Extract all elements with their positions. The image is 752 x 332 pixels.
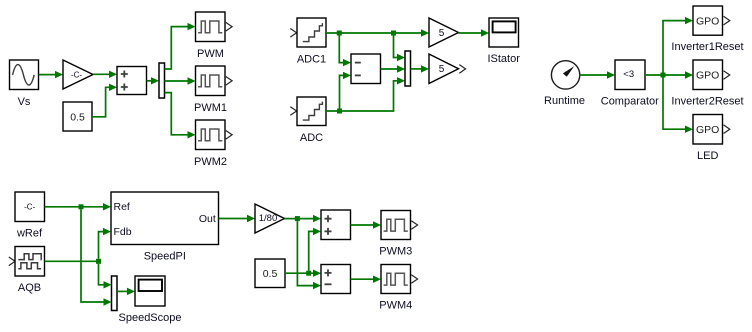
wire Mux to Gain5b bbox=[411, 65, 430, 72]
svg-text:Runtime: Runtime bbox=[544, 95, 585, 107]
junction on AQB wire bbox=[96, 259, 101, 264]
wire ADC to Mux in3 bbox=[326, 77, 405, 111]
constant 0.5 b bbox=[255, 259, 285, 288]
scope IStator bbox=[489, 18, 519, 47]
wire Demux to PWM bbox=[165, 23, 196, 69]
svg-text:Comparator: Comparator bbox=[601, 96, 659, 108]
svg-text:LED: LED bbox=[697, 150, 718, 162]
svg-text:ADC1: ADC1 bbox=[297, 54, 326, 66]
svg-text:SpeedScope: SpeedScope bbox=[119, 312, 182, 324]
constant wRef bbox=[15, 192, 45, 222]
svg-text:AQB: AQB bbox=[18, 282, 41, 294]
ADC1 block bbox=[297, 18, 326, 47]
gain Gain 1/80 bbox=[255, 204, 285, 233]
wire J2 to Mux in1 bbox=[394, 36, 406, 62]
junction on 0.5b wire bbox=[306, 271, 311, 276]
svg-text:ADC: ADC bbox=[300, 132, 323, 144]
svg-text:Out: Out bbox=[199, 213, 216, 225]
GPO block 2 bbox=[693, 60, 730, 90]
gain Gain5 bottom bbox=[429, 54, 466, 84]
svg-text:0.5: 0.5 bbox=[263, 268, 278, 280]
demux Demux bbox=[159, 63, 165, 98]
svg-text:GPO: GPO bbox=[696, 69, 719, 81]
svg-text:0.5: 0.5 bbox=[70, 111, 85, 123]
wire junction to Subtract in2 bbox=[340, 72, 352, 109]
wire J1 to Subtract in1 bbox=[339, 36, 351, 67]
svg-text:Vs: Vs bbox=[18, 96, 31, 108]
junction J2 on ADC1 wire bbox=[391, 31, 396, 36]
GPO block 3 bbox=[693, 115, 730, 145]
sum Add3 bbox=[321, 265, 351, 294]
subtract block bbox=[351, 54, 381, 84]
pulse generator PWM bbox=[196, 12, 233, 42]
wire junction to Sum3 minus bbox=[297, 221, 321, 289]
wire junction to Sum2 in2 bbox=[309, 228, 321, 271]
comparator block bbox=[615, 60, 645, 90]
pulse generator PWM2 bbox=[196, 120, 233, 150]
wire Runtime to Comparator bbox=[580, 71, 615, 78]
input port chevron AQB bbox=[9, 257, 15, 266]
input port chevron ADC1 bbox=[290, 29, 296, 38]
source block Vs bbox=[10, 60, 39, 90]
input port chevron ADC bbox=[290, 107, 296, 116]
wire junction to SpeedPI Fdb bbox=[99, 228, 112, 259]
gain Gain (-C-) bbox=[63, 60, 93, 89]
wire SpeedPI Out to Gain 1/80 bbox=[219, 215, 256, 222]
wire Sum to Demux bbox=[147, 77, 160, 84]
svg-text:Inverter1Reset: Inverter1Reset bbox=[671, 41, 743, 53]
svg-text:5: 5 bbox=[439, 64, 445, 75]
svg-text:PWM4: PWM4 bbox=[379, 300, 412, 312]
wire Demux to PWM2 bbox=[165, 93, 196, 139]
svg-text:IStator: IStator bbox=[487, 53, 520, 65]
junction on comparator wire bbox=[661, 73, 666, 78]
pulse generator PWM3 bbox=[381, 211, 418, 240]
wire Sum3 to PWM4 bbox=[351, 276, 382, 283]
sum Add2 bbox=[321, 210, 351, 240]
wire Gain to Sum bbox=[93, 71, 117, 78]
svg-text:GPO: GPO bbox=[696, 15, 719, 27]
junction after Gain 1/80 bbox=[295, 216, 300, 221]
wire 0.5 to Sum bbox=[92, 84, 117, 117]
wire junction to GPO1 bbox=[663, 17, 693, 73]
svg-text:PWM: PWM bbox=[197, 48, 224, 60]
svg-text:Inverter2Reset: Inverter2Reset bbox=[671, 96, 743, 108]
pulse generator PWM1 bbox=[196, 66, 233, 96]
wire ADC1 to Gain5 bbox=[326, 29, 429, 36]
svg-text:wRef: wRef bbox=[16, 228, 43, 240]
wire 0.5b to Sum3 plus bbox=[285, 270, 321, 277]
wire junction to Mux3 lower bbox=[81, 209, 112, 305]
gain Gain5 top bbox=[429, 18, 459, 47]
svg-text:<3: <3 bbox=[623, 69, 634, 80]
pulse generator PWM4 bbox=[381, 265, 418, 294]
wire Subtract to Mux in2 bbox=[381, 65, 406, 72]
svg-text:GPO: GPO bbox=[696, 124, 719, 136]
svg-text:1/80: 1/80 bbox=[259, 213, 278, 224]
wire AQB to junction bbox=[45, 260, 99, 262]
wire Comparator to GPO2 bbox=[645, 71, 693, 78]
wire Mux3 to SpeedScope bbox=[117, 288, 135, 295]
mux Mux3 bbox=[112, 276, 118, 311]
wire wRef to SpeedPI Ref bbox=[45, 203, 112, 210]
wire junction to GPO3 bbox=[663, 78, 693, 133]
wire Gain 1/80 to Sum2 bbox=[285, 215, 322, 222]
svg-text:-C-: -C- bbox=[71, 70, 82, 79]
junction J1 on ADC1 wire bbox=[337, 31, 342, 36]
constant 0.5 bbox=[63, 102, 92, 131]
wire Vs to Gain bbox=[39, 71, 64, 78]
svg-text:PWM2: PWM2 bbox=[194, 156, 227, 168]
ADC block bbox=[297, 97, 326, 126]
mux Mux bbox=[405, 51, 411, 86]
wire Sum2 to PWM3 bbox=[351, 221, 382, 228]
wire Gain5 to IStator bbox=[459, 29, 490, 36]
svg-text:5: 5 bbox=[439, 28, 445, 39]
junction on ADC wire bbox=[337, 109, 342, 114]
clock Runtime bbox=[551, 61, 579, 89]
svg-text:-C-: -C- bbox=[24, 203, 35, 212]
encoder AQB bbox=[15, 247, 45, 277]
scope SpeedScope bbox=[135, 276, 165, 306]
subsystem SpeedPI bbox=[111, 192, 219, 245]
junction on wRef wire bbox=[79, 204, 84, 209]
svg-text:Ref: Ref bbox=[114, 201, 130, 213]
svg-text:PWM3: PWM3 bbox=[379, 246, 412, 258]
GPO block 1 bbox=[693, 6, 730, 35]
svg-text:PWM1: PWM1 bbox=[194, 102, 227, 114]
svg-text:SpeedPI: SpeedPI bbox=[144, 251, 186, 263]
sum Add1 bbox=[117, 67, 147, 95]
svg-text:Fdb: Fdb bbox=[114, 226, 132, 238]
wire junction to Mux3 upper bbox=[99, 264, 112, 289]
wire Demux to PWM1 bbox=[165, 77, 196, 84]
